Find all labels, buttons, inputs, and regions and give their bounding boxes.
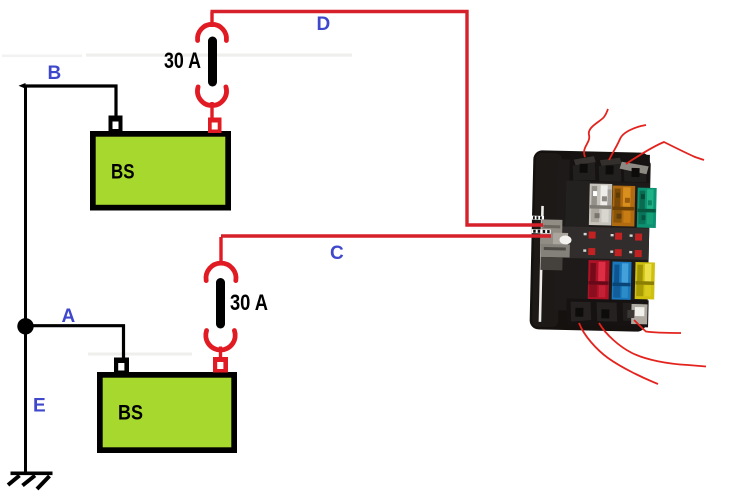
fuse box backplate <box>529 150 650 332</box>
svg-text:A: A <box>62 306 76 327</box>
fuse box FB1 (photo of 6-way blade fuse block) <box>529 150 657 332</box>
svg-text:D: D <box>317 14 331 35</box>
node junction on ground wire <box>17 318 33 334</box>
fuse blue (bottom row slot 5) <box>612 262 632 301</box>
fuse box output pigtail wire (bottom 3) <box>634 320 681 333</box>
wire E : left vertical ground wire <box>24 85 27 473</box>
svg-text:B: B <box>48 63 62 84</box>
fuse box output pigtail wire (top 3) <box>626 142 704 164</box>
svg-text:30 A: 30 A <box>164 48 201 73</box>
wire D : red from fuse F1 top to fuse box input <box>211 12 544 226</box>
wire A : from junction node to battery BS2 negative terminal <box>26 326 124 359</box>
svg-text:E: E <box>33 396 46 417</box>
battery BS1 negative terminal <box>109 116 123 133</box>
fuse orange (top row slot 2) <box>612 186 635 227</box>
fuse F2 30 A (bottom) holder clips <box>206 237 236 359</box>
svg-text:C: C <box>330 243 344 264</box>
fuse box slot block left <box>565 180 590 227</box>
fuse box top terminal row <box>569 153 650 183</box>
battery BS2 positive terminal <box>213 357 228 373</box>
fuse red (bottom row slot 4) <box>588 260 610 300</box>
fuse F1 30 A (top) holder clips <box>198 12 227 120</box>
battery BS1 (top) <box>90 131 231 211</box>
fuse box bottom terminal row <box>566 298 649 327</box>
fuse box LED indicator band <box>556 226 650 260</box>
svg-text:BS: BS <box>111 161 135 184</box>
fuse white (top row slot 1) <box>589 183 612 225</box>
svg-text:30 A: 30 A <box>230 290 268 315</box>
fuse F1 element (black bar) <box>208 37 217 87</box>
wire C : red from fuse F2 top to fuse box input <box>221 234 551 237</box>
fuse box output pigtail wire (top 1) <box>584 109 608 157</box>
battery BS2 (bottom) <box>97 372 237 453</box>
fuse box backplate white gap slit <box>539 206 544 322</box>
battery BS2 negative terminal <box>114 358 129 374</box>
ground <box>8 472 53 490</box>
wire B : horizontal from left column to battery BS1 negative terminal <box>24 86 116 118</box>
fuse F2 element (black bar) <box>216 278 225 329</box>
fuse green (top row slot 3) <box>637 188 657 228</box>
fuse box body <box>554 159 651 312</box>
svg-text:BS: BS <box>118 402 143 425</box>
battery BS1 positive terminal <box>208 118 222 134</box>
fuse box output pigtail wire (bottom 2) <box>599 323 706 367</box>
fuse box side connector (metal) <box>531 216 572 271</box>
fuse box output pigtail wire (top 2) <box>609 125 646 160</box>
fuse box output pigtail wire (bottom 1) <box>579 323 658 384</box>
fuse yellow (bottom row slot 6) <box>635 262 655 299</box>
